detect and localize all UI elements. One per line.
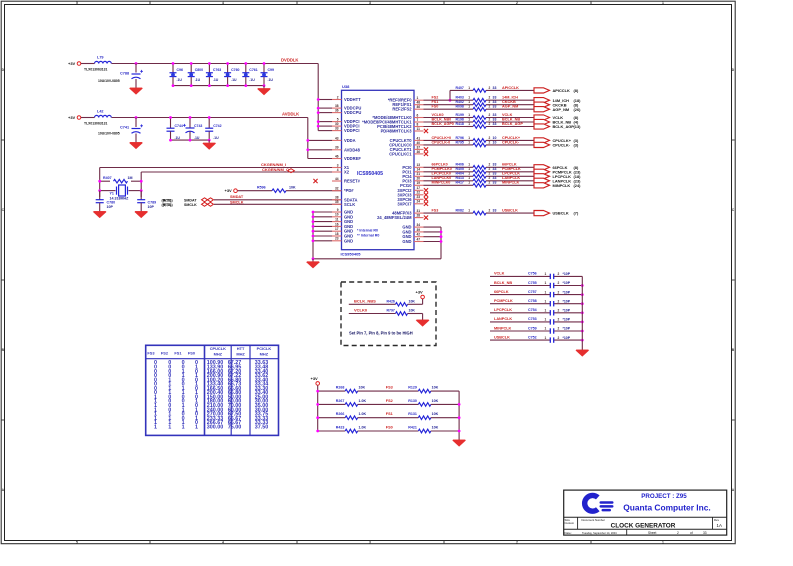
no-connect X on RESET#	[313, 179, 317, 183]
svg-text:*10P: *10P	[563, 299, 571, 303]
svg-text:C760: C760	[231, 68, 239, 72]
svg-text:R199: R199	[456, 113, 464, 117]
svg-text:C99: C99	[268, 68, 274, 72]
size/custom labels	[565, 518, 575, 525]
bottom bus of cap bank row2	[171, 139, 210, 141]
resistor R199 / VCLK port	[424, 113, 579, 120]
note (R,T3) labels	[162, 198, 172, 207]
svg-text:33: 33	[493, 122, 497, 126]
svg-text:CPUCLK+0: CPUCLK+0	[432, 136, 452, 140]
svg-text:2: 2	[489, 140, 491, 144]
svg-text:1: 1	[545, 327, 547, 331]
resistor R407 1M	[98, 176, 142, 183]
ground (C741)	[130, 140, 142, 149]
capacitor C758 10P on PCMPCLK	[490, 299, 584, 306]
svg-text:38: 38	[335, 104, 339, 108]
svg-text:MINPCLK: MINPCLK	[553, 183, 571, 188]
svg-text:+3V: +3V	[416, 290, 424, 295]
svg-text:+3V: +3V	[68, 115, 76, 120]
svg-text:AGP_NM: AGP_NM	[502, 105, 518, 109]
IC left pins with numbers and names	[332, 95, 361, 243]
svg-text:10K: 10K	[432, 399, 439, 403]
capacitor C763 .1U	[206, 62, 221, 87]
GND left rail	[312, 211, 332, 259]
svg-text:2: 2	[489, 176, 491, 180]
capacitor C754 10P on LPCPCLK	[490, 308, 584, 315]
svg-text:10K: 10K	[432, 386, 439, 390]
svg-text:5: 5	[337, 118, 339, 122]
svg-text:C789: C789	[148, 201, 157, 205]
svg-text:1.0K: 1.0K	[359, 399, 367, 403]
svg-text:300.00: 300.00	[207, 424, 224, 430]
svg-text:3: 3	[337, 163, 339, 167]
svg-text:.1U: .1U	[194, 136, 200, 140]
svg-text:9: 9	[337, 208, 339, 212]
svg-text:48: 48	[417, 101, 421, 105]
svg-text:47: 47	[417, 237, 421, 241]
svg-text:+3V: +3V	[68, 61, 76, 66]
title block dividers	[564, 517, 727, 535]
resistor R402 / CKCKB port	[424, 100, 579, 107]
svg-text:.1U: .1U	[213, 78, 219, 82]
svg-text:MHZ: MHZ	[260, 352, 269, 357]
svg-text:CKCKB: CKCKB	[502, 100, 516, 104]
svg-text:MHZ: MHZ	[214, 352, 223, 357]
svg-text:2: 2	[558, 327, 560, 331]
svg-text:R130: R130	[408, 399, 417, 403]
svg-text:R406: R406	[456, 163, 464, 167]
svg-text:1: 1	[468, 113, 470, 117]
svg-text:FS0: FS0	[432, 105, 439, 109]
svg-text:4: 4	[222, 540, 224, 544]
svg-text:USBCLK: USBCLK	[494, 335, 510, 339]
svg-text:1: 1	[468, 172, 470, 176]
svg-text:R198: R198	[456, 117, 464, 121]
svg-text:L79: L79	[97, 56, 104, 60]
svg-text:10K: 10K	[432, 425, 439, 429]
svg-text:R402: R402	[456, 100, 464, 104]
svg-text:66PCLK: 66PCLK	[502, 163, 517, 167]
svg-text:ICS950405: ICS950405	[357, 171, 383, 177]
resistor R082 / USBCLK port	[424, 209, 579, 216]
table headers	[147, 346, 271, 356]
svg-text:C752: C752	[528, 335, 537, 339]
svg-text:33: 33	[493, 163, 497, 167]
svg-text:10U/10V-0805: 10U/10V-0805	[98, 132, 120, 136]
svg-text:PCICLK: PCICLK	[257, 346, 272, 351]
svg-text:(R,T1): (R,T1)	[163, 203, 173, 207]
svg-text:R266: R266	[336, 412, 345, 416]
svg-text:R268: R268	[336, 386, 345, 390]
IC internal notes	[357, 229, 379, 238]
junction C788 tap	[135, 62, 138, 65]
capacitor C743 .1U	[183, 116, 202, 141]
svg-text:.1U: .1U	[231, 78, 237, 82]
svg-text:22: 22	[417, 191, 421, 195]
svg-text:66PCLK: 66PCLK	[494, 290, 509, 294]
resistor R596 10K	[238, 186, 342, 193]
svg-text:C763: C763	[213, 68, 221, 72]
power symbol +3V (FS matrix)	[311, 376, 320, 385]
table data rows	[154, 360, 268, 430]
svg-text:10P: 10P	[107, 205, 114, 209]
svg-text:VCLK0: VCLK0	[432, 113, 444, 117]
capacitor C741	[98, 118, 143, 140]
crystal left rail	[99, 168, 101, 198]
svg-text:+3V: +3V	[225, 188, 233, 193]
svg-text:REF2/FS2: REF2/FS2	[392, 107, 412, 112]
svg-text:R797: R797	[387, 309, 395, 313]
svg-text:*PD#: *PD#	[344, 188, 354, 193]
svg-text:75.00: 75.00	[228, 424, 242, 430]
svg-text:2: 2	[489, 100, 491, 104]
svg-text:USBCLK: USBCLK	[553, 211, 569, 216]
op IC U38 ICS950405 body	[342, 90, 415, 249]
svg-text:MINPCLK0: MINPCLK0	[432, 181, 451, 185]
svg-text:C788: C788	[120, 72, 129, 76]
resistors R267/R130 strap FS2	[316, 399, 460, 406]
svg-text:40: 40	[417, 141, 421, 145]
svg-text:3: 3	[369, 1, 371, 5]
svg-text:1: 1	[468, 105, 470, 109]
svg-text:1: 1	[662, 540, 664, 544]
svg-text:1: 1	[545, 299, 547, 303]
svg-text:1: 1	[545, 309, 547, 313]
svg-text:VDDHTT: VDDHTT	[344, 97, 361, 102]
resistor R795 / CPUCLK- port	[424, 140, 579, 147]
svg-text:10K: 10K	[289, 186, 296, 190]
svg-text:(13): (13)	[574, 124, 582, 129]
svg-text:AVDDLK: AVDDLK	[282, 112, 299, 117]
svg-text:APICCLK: APICCLK	[553, 88, 570, 93]
resistor R407 33 / APICCLK port	[456, 86, 579, 93]
dashed option box	[341, 282, 436, 346]
svg-text:11: 11	[417, 127, 421, 131]
svg-text:*10P: *10P	[563, 281, 571, 285]
junction GND bus	[312, 257, 315, 260]
svg-text:VCLK0: VCLK0	[354, 308, 368, 313]
svg-text:C800: C800	[195, 68, 203, 72]
svg-text:FS3: FS3	[386, 386, 393, 390]
svg-text:CPUCLK: CPUCLK	[210, 346, 226, 351]
svg-text:R421: R421	[408, 425, 417, 429]
svg-text:37.50: 37.50	[255, 424, 269, 430]
resistor R405 / PCMPCLK port	[424, 167, 582, 174]
svg-text:R423: R423	[336, 425, 345, 429]
svg-text:BCLK_NBS: BCLK_NBS	[354, 299, 376, 304]
power symbol +3V (PD# pullup)	[225, 188, 238, 193]
svg-text:66PCLK0: 66PCLK0	[432, 163, 448, 167]
svg-text:TLX013063131: TLX013063131	[84, 68, 107, 72]
GND right rail	[424, 227, 443, 259]
capacitor C99 .1U	[261, 62, 274, 87]
svg-text:16: 16	[335, 222, 339, 226]
svg-text:Quanta Computer Inc.: Quanta Computer Inc.	[623, 502, 710, 512]
svg-text:AVDD48: AVDD48	[344, 147, 361, 152]
ground (FS matrix)	[453, 437, 465, 446]
svg-text:BCLK_NB0: BCLK_NB0	[432, 117, 452, 121]
svg-text:R407: R407	[456, 86, 464, 90]
svg-text:PCMPCLK: PCMPCLK	[502, 167, 521, 171]
svg-text:VDDPCI: VDDPCI	[344, 128, 359, 133]
svg-text:of: of	[690, 531, 693, 535]
svg-text:CPUCLK+: CPUCLK+	[502, 136, 521, 140]
svg-text:33: 33	[493, 209, 497, 213]
svg-text:PD/48MHTCLK3: PD/48MHTCLK3	[381, 129, 413, 134]
svg-text:2: 2	[489, 181, 491, 185]
wire SMDAT	[214, 195, 342, 200]
capacitor C757 10P on 66PCLK	[490, 290, 584, 297]
svg-text:R082: R082	[456, 209, 464, 213]
svg-text:R098: R098	[456, 105, 464, 109]
svg-text:2: 2	[558, 272, 560, 276]
svg-text:VDDCPU: VDDCPU	[344, 110, 361, 115]
ground (C789)	[135, 209, 147, 218]
svg-text:33: 33	[493, 167, 497, 171]
svg-text:*10P: *10P	[563, 318, 571, 322]
svg-text:1: 1	[168, 424, 171, 430]
inductor L79	[84, 56, 111, 72]
capacitor C753 10P on LANPCLK	[490, 317, 584, 324]
svg-text:1M: 1M	[128, 176, 133, 180]
svg-text:33: 33	[493, 176, 497, 180]
svg-text:R267: R267	[336, 399, 345, 403]
ground (cap bank row1)	[258, 86, 270, 95]
svg-text:2: 2	[489, 122, 491, 126]
svg-text:17: 17	[335, 227, 339, 231]
svg-text:8: 8	[417, 122, 419, 126]
svg-text:42: 42	[417, 233, 421, 237]
svg-text:R131: R131	[408, 412, 417, 416]
svg-text:33: 33	[335, 127, 339, 131]
svg-text:CKGEN/NM_O: CKGEN/NM_O	[262, 167, 289, 172]
capacitor C744 .1U	[167, 116, 183, 141]
svg-text:2: 2	[489, 167, 491, 171]
svg-text:HTT: HTT	[237, 346, 245, 351]
svg-text:C759: C759	[528, 326, 537, 330]
capacitor C752 10P on USBCLK	[490, 335, 584, 342]
svg-text:2: 2	[558, 336, 560, 340]
svg-text:1: 1	[545, 272, 547, 276]
svg-text:41: 41	[417, 136, 421, 140]
svg-text:11: 11	[335, 218, 339, 222]
svg-text:36: 36	[335, 109, 339, 113]
svg-text:33: 33	[493, 100, 497, 104]
SMDAT entry flag	[163, 198, 214, 203]
resistor R797 10K pulldown VCLK0	[349, 308, 423, 317]
svg-text:CPUCLKC1: CPUCLKC1	[389, 151, 412, 156]
svg-text:Y1: Y1	[110, 192, 114, 196]
svg-text:VDDA: VDDA	[344, 138, 356, 143]
svg-text:LANPCLK: LANPCLK	[494, 317, 512, 321]
table header divider	[146, 358, 279, 360]
svg-text:SMDAT: SMDAT	[184, 198, 197, 202]
svg-text:GND: GND	[344, 238, 353, 243]
svg-text:C744: C744	[175, 124, 183, 128]
svg-text:FS3: FS3	[147, 350, 155, 355]
svg-text:1: 1	[468, 136, 470, 140]
svg-text:1.0K: 1.0K	[359, 412, 367, 416]
capacitor C742 .1U	[205, 116, 221, 141]
svg-text:31: 31	[417, 209, 421, 213]
svg-text:(7): (7)	[574, 211, 579, 216]
svg-text:BCLK_NB: BCLK_NB	[494, 281, 512, 285]
capacitor C759 10P on MINPCLK	[490, 326, 584, 333]
svg-text:FS3: FS3	[432, 209, 439, 213]
svg-text:Tuesday, September 14, 2004: Tuesday, September 14, 2004	[582, 531, 617, 535]
svg-text:4: 4	[337, 168, 339, 172]
svg-text:33: 33	[493, 86, 497, 90]
svg-text:C758: C758	[528, 299, 537, 303]
svg-text:1: 1	[468, 209, 470, 213]
svg-text:28: 28	[417, 214, 421, 218]
svg-text:LPCPCLK: LPCPCLK	[494, 308, 512, 312]
svg-text:R426: R426	[387, 300, 395, 304]
svg-text:LANPCLK: LANPCLK	[502, 176, 520, 180]
svg-text:* Internal R0: * Internal R0	[357, 229, 378, 233]
svg-text:1: 1	[468, 140, 470, 144]
resistor R406 / 66PCLK port	[424, 163, 579, 170]
svg-text:C756: C756	[528, 272, 537, 276]
svg-text:20: 20	[417, 177, 421, 181]
svg-text:BCLK_AGP: BCLK_AGP	[553, 124, 575, 129]
svg-text:R417: R417	[456, 181, 464, 185]
svg-text:1: 1	[468, 163, 470, 167]
svg-text:FS2: FS2	[161, 350, 169, 355]
svg-text:*10P: *10P	[563, 272, 571, 276]
svg-text:BCLK_AGP: BCLK_AGP	[502, 122, 523, 126]
svg-text:1: 1	[545, 336, 547, 340]
svg-text:1: 1	[468, 167, 470, 171]
ground (C788)	[130, 85, 142, 94]
svg-text:10K: 10K	[409, 309, 416, 313]
svg-text:*10P: *10P	[563, 309, 571, 313]
resistor R403 / 14M_ICH port	[424, 96, 582, 103]
svg-text:2: 2	[558, 281, 560, 285]
svg-text:FS2: FS2	[386, 399, 393, 403]
svg-text:.1U: .1U	[177, 78, 183, 82]
svg-text:1: 1	[154, 424, 157, 430]
svg-text:C755: C755	[528, 281, 537, 285]
cap rail to ground	[581, 276, 583, 347]
svg-text:MINPCLK: MINPCLK	[494, 326, 512, 330]
svg-text:1A: 1A	[717, 523, 722, 528]
wire X1 net	[100, 167, 342, 169]
svg-text:2: 2	[516, 1, 518, 5]
svg-text:CPUCLK-0: CPUCLK-0	[432, 140, 451, 144]
svg-text:.1U: .1U	[175, 136, 181, 140]
svg-text:6: 6	[417, 113, 419, 117]
resistor R413 / LANPCLK port	[424, 176, 582, 183]
ground (cap bank row2)	[203, 140, 215, 149]
svg-text:SMDAT: SMDAT	[230, 195, 244, 199]
svg-text:2: 2	[489, 113, 491, 117]
svg-text:C757: C757	[528, 290, 537, 294]
svg-text:R129: R129	[408, 386, 417, 390]
svg-text:LPCPCLK: LPCPCLK	[502, 172, 520, 176]
DVDDLK rail to VDD pins	[317, 64, 332, 131]
svg-text:(R,T1): (R,T1)	[163, 198, 173, 202]
svg-text:19: 19	[417, 181, 421, 185]
capacitor C755 10P on BCLK_NB	[490, 281, 584, 288]
svg-text:R403: R403	[456, 96, 464, 100]
svg-text:1: 1	[468, 86, 470, 90]
svg-text:1: 1	[545, 290, 547, 294]
svg-text:FS0: FS0	[188, 350, 195, 355]
frequency table frame	[146, 345, 279, 435]
svg-text:FS1: FS1	[432, 100, 439, 104]
capacitor C788	[98, 64, 143, 86]
svg-text:VCLK: VCLK	[494, 272, 505, 276]
svg-text:2: 2	[337, 95, 339, 99]
table column dividers	[205, 345, 251, 435]
svg-text:APICCLK: APICCLK	[502, 86, 519, 90]
resistors R266/R131 strap FS1	[316, 412, 460, 419]
svg-text:CPUCLK-: CPUCLK-	[502, 140, 520, 144]
svg-text:4: 4	[222, 1, 224, 5]
svg-text:1: 1	[195, 424, 198, 430]
svg-text:SCLK: SCLK	[344, 202, 355, 207]
IC right pins with numbers and names	[362, 96, 428, 244]
capacitor C780 10P	[96, 191, 115, 210]
svg-text:C753: C753	[528, 317, 537, 321]
svg-text:21: 21	[417, 172, 421, 176]
svg-text:1: 1	[468, 122, 470, 126]
svg-text:AGP_NM: AGP_NM	[553, 107, 570, 112]
svg-text:C761: C761	[249, 68, 257, 72]
svg-text:30: 30	[335, 122, 339, 126]
svg-text:2: 2	[558, 290, 560, 294]
svg-text:33: 33	[493, 181, 497, 185]
svg-text:1.0K: 1.0K	[359, 425, 367, 429]
svg-text:BCLK_AGP0: BCLK_AGP0	[432, 122, 454, 126]
SMCLK entry flag	[163, 202, 214, 207]
svg-text:2: 2	[677, 531, 679, 535]
svg-text:1: 1	[545, 318, 547, 322]
svg-text:LPCPCLK0: LPCPCLK0	[432, 172, 451, 176]
svg-text:X2: X2	[344, 170, 350, 175]
svg-text:FS1: FS1	[174, 350, 182, 355]
crystal right rail	[140, 172, 142, 197]
svg-text:1: 1	[182, 424, 185, 430]
svg-text:L42: L42	[97, 110, 104, 114]
svg-text:10: 10	[335, 213, 339, 217]
svg-text:3XPCI7: 3XPCI7	[397, 201, 412, 206]
svg-text:10K: 10K	[432, 412, 439, 416]
svg-text:C96: C96	[177, 68, 183, 72]
svg-text:.1U: .1U	[249, 78, 255, 82]
svg-text:33: 33	[493, 96, 497, 100]
svg-text:PROJECT : Z95: PROJECT : Z95	[641, 493, 687, 500]
APICCLK output row: wire from pin1 up	[449, 90, 467, 101]
svg-text:.1U: .1U	[195, 78, 201, 82]
svg-text:38: 38	[335, 196, 339, 200]
svg-text:Sheet: Sheet	[648, 531, 656, 535]
svg-text:FS2: FS2	[432, 96, 439, 100]
svg-text:MINPCLK: MINPCLK	[502, 181, 520, 185]
svg-text:10U/10V-0805: 10U/10V-0805	[98, 79, 120, 83]
svg-text:18: 18	[335, 232, 339, 236]
svg-text:U38: U38	[342, 84, 350, 89]
svg-text:44: 44	[335, 177, 339, 181]
svg-text:2: 2	[558, 309, 560, 313]
resistor R418 / BCLK_AGP port	[424, 122, 582, 129]
svg-text:** Internal R0: ** Internal R0	[357, 234, 379, 238]
svg-text:R796: R796	[456, 136, 464, 140]
Quanta logo	[582, 493, 614, 514]
capacitor C761 .1U	[242, 62, 257, 87]
svg-text:SMCLK: SMCLK	[184, 203, 197, 207]
